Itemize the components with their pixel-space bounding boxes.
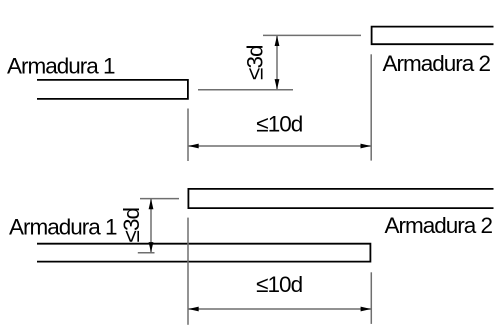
extension line from end of bar 1 (top figure) [187,109,189,162]
svg-text:Armadura 2: Armadura 2 [383,51,491,76]
svg-text:≤10d: ≤10d [256,111,302,136]
arrowhead right (top ≤10d) [361,144,371,149]
extension line below start of bar 2 (bottom figure) [187,218,189,325]
dimension line ≤10d (top figure) [188,145,371,147]
svg-text:≤10d: ≤10d [256,272,302,297]
bar Armadura 1 (bottom figure, open left end) [37,244,370,262]
dimension line ≤3d (top figure) [276,35,278,89]
bar Armadura 2 (top figure, open right end) [372,27,494,45]
svg-text:Armadura 2: Armadura 2 [385,213,493,238]
svg-text:≤3d: ≤3d [242,45,267,80]
extension stub at bar 1 centerline (bottom figure) [138,252,155,254]
extension line from bar 2 centerline (top figure) [263,34,361,36]
dimension line ≤10d (bottom figure) [188,308,371,310]
svg-text:≤3d: ≤3d [119,208,144,243]
extension line from bar 1 centerline (top figure) [198,89,293,91]
arrowhead left (top ≤10d) [188,144,198,149]
arrowhead right (bottom ≤10d) [361,307,371,312]
arrowhead up (bottom ≤3d) [149,199,154,209]
arrowhead down (bottom ≤3d) [149,242,154,252]
extension line from start of bar 2 (top figure) [370,54,372,160]
svg-text:Armadura 1: Armadura 1 [7,54,115,79]
arrowhead up (top ≤3d) [275,36,280,46]
bar Armadura 1 (top figure, open left end) [37,80,188,99]
svg-text:Armadura 1: Armadura 1 [9,215,117,240]
extension line from bar 2 centerline (bottom figure) [140,198,179,200]
arrowhead down (top ≤3d) [275,79,280,89]
arrowhead left (bottom ≤10d) [188,307,198,312]
extension line below end of bar 1 (bottom figure) [370,272,372,324]
dimension line ≤3d (bottom figure) [150,199,152,253]
bar Armadura 2 (bottom figure, open right end) [188,189,493,208]
